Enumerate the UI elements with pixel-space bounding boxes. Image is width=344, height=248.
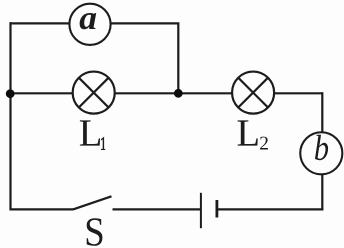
junction node left [6, 89, 15, 98]
lamp L2 (circle with X) [232, 72, 274, 114]
battery long plate (+) [200, 193, 202, 228]
ammeter label a [80, 13, 97, 29]
wire: bottom horizontal from switch to left corner [10, 208, 74, 210]
label L2 subscript 2 [260, 137, 268, 150]
switch label S [87, 218, 103, 246]
wire: middle horizontal from L1 to L2 [114, 92, 232, 94]
label L1 [80, 120, 100, 145]
junction node middle [174, 89, 183, 98]
wire: right vertical down to voltmeter b [321, 92, 323, 133]
voltmeter label b [315, 135, 328, 160]
label L2 [238, 120, 258, 145]
voltmeter b (circle) [300, 132, 342, 174]
battery short plate (-) [215, 200, 218, 218]
wire: top horizontal left of ammeter [10, 22, 70, 24]
ammeter a (circle) [69, 4, 110, 45]
wire: bottom horizontal from battery to switch [113, 208, 201, 210]
switch S blade [73, 196, 112, 209]
wire: bottom horizontal from right corner to battery [217, 208, 324, 210]
wire: top horizontal right of ammeter [110, 22, 179, 24]
wire: left vertical [9, 22, 11, 210]
wire: middle horizontal from L2 to right corner [274, 92, 323, 94]
lamp L1 (circle with X) [73, 72, 115, 114]
label L1 subscript 1 [101, 137, 105, 150]
wire: vertical from top wire down to middle node [177, 23, 179, 93]
wire: right vertical below voltmeter b [321, 174, 323, 211]
wire: middle horizontal from left node to L1 [11, 92, 74, 94]
